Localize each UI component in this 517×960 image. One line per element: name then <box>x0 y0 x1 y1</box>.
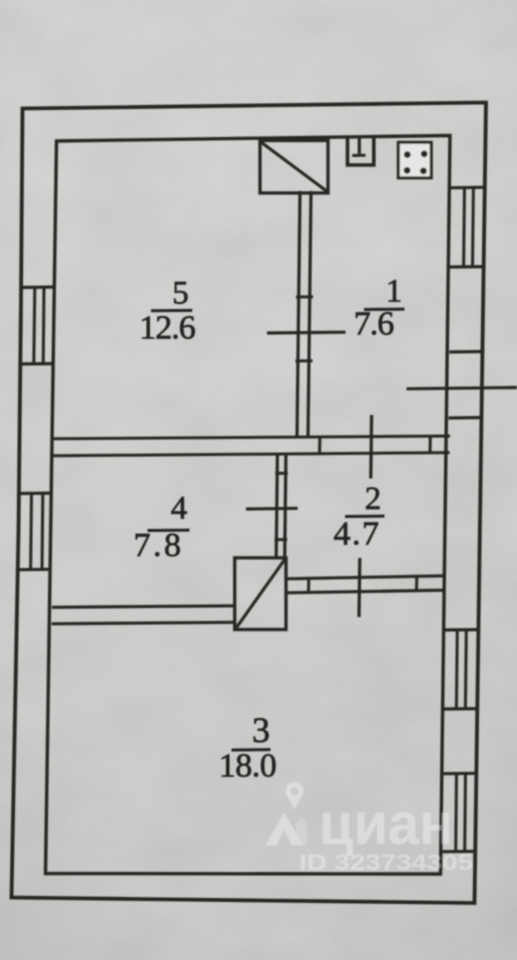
window W1 glazing line b <box>42 287 46 364</box>
door leaf box room3 <box>235 558 286 630</box>
svg-text:циан: циан <box>319 791 453 857</box>
mid wall tick right <box>429 436 432 453</box>
wall rooms2-3 line b <box>286 590 444 593</box>
mid horizontal wall line a <box>52 436 450 439</box>
window W2 left wall room4 top edge <box>18 492 52 496</box>
partition wall rooms4-2 line b <box>285 455 286 557</box>
door mark rooms1-2 <box>369 415 373 479</box>
svg-text:4: 4 <box>171 491 188 527</box>
window W3 right wall room1 top edge <box>450 186 485 190</box>
window W2 glazing line a <box>29 493 33 569</box>
partition wall rooms4-2 line a <box>276 456 277 558</box>
entrance line to image edge <box>407 388 517 389</box>
svg-text:1: 1 <box>386 274 403 310</box>
wall 5-1 tick upper <box>296 295 313 298</box>
svg-text:ID 323734305: ID 323734305 <box>299 850 473 875</box>
inner wall outline <box>46 136 451 875</box>
svg-text:18.0: 18.0 <box>219 748 277 785</box>
window W4 right wall room3 upper bottom edge <box>443 707 478 711</box>
svg-text:7.6: 7.6 <box>354 306 394 343</box>
stove symbol <box>398 142 431 178</box>
window W4 glazing line a <box>455 630 459 709</box>
room 4 fraction line <box>148 529 190 532</box>
sink symbol <box>348 138 374 166</box>
wall 2-3 tick left <box>307 578 310 593</box>
door leaf diagonal <box>237 560 285 628</box>
mid horizontal wall line b <box>52 453 450 456</box>
sink tap stem <box>358 138 361 154</box>
room 1 fraction line <box>364 308 405 311</box>
partition wall rooms5-1 line b <box>308 191 311 437</box>
door mark rooms2-3 <box>357 558 361 617</box>
svg-text:5: 5 <box>172 276 189 312</box>
window W1 glazing line a <box>34 287 35 364</box>
right wall tick lower <box>449 416 484 420</box>
wall rooms4-3 line a <box>52 606 235 608</box>
wall 4-2 tick upper <box>275 472 288 475</box>
flue duct diagonal <box>262 143 327 192</box>
room 2 fraction line <box>345 515 385 518</box>
wall 2-3 tick right <box>415 576 418 591</box>
outer wall outline <box>12 103 487 904</box>
room 3 fraction line <box>232 748 271 751</box>
window W3 right wall room1 bottom edge <box>449 265 484 269</box>
svg-text:7.8: 7.8 <box>134 527 184 564</box>
svg-text:3: 3 <box>252 710 270 750</box>
sink tap bar <box>352 154 365 157</box>
room labels <box>134 274 405 785</box>
window W4 right wall room3 upper top edge <box>444 628 479 632</box>
svg-text:2: 2 <box>365 481 382 517</box>
wall 5-1 tick lower <box>296 359 313 362</box>
watermark pin icon <box>285 782 303 800</box>
window W2 glazing line b <box>41 493 45 569</box>
room 5 fraction line <box>151 309 192 312</box>
window W2 left wall room4 bottom edge <box>17 568 51 572</box>
cian watermark <box>266 782 474 875</box>
wall rooms2-3 line a <box>286 576 444 579</box>
window W4 glazing line b <box>464 630 468 709</box>
watermark logo mark <box>266 813 304 846</box>
flue duct box <box>260 141 328 194</box>
right wall tick upper <box>449 350 484 354</box>
svg-text:12.6: 12.6 <box>139 310 195 347</box>
mid wall tick left <box>318 437 321 455</box>
wall rooms4-3 line b <box>52 622 235 624</box>
door mark rooms5-1 <box>267 331 346 335</box>
window W1 left wall room5 top edge <box>21 285 55 289</box>
window W3 glazing line b <box>471 187 475 266</box>
partition wall rooms5-1 line a <box>297 191 300 438</box>
window W3 glazing line a <box>462 188 466 268</box>
window W5 glazing line b <box>463 773 467 851</box>
wall 4-2 tick lower <box>275 538 288 541</box>
window W1 left wall room5 bottom edge <box>19 362 53 366</box>
door mark rooms4-2 <box>246 507 298 511</box>
window W5 glazing line a <box>454 774 458 852</box>
window W5 right wall room3 lower top edge <box>442 772 477 776</box>
window W5 right wall room3 lower bottom edge <box>441 850 476 854</box>
svg-text:4.7: 4.7 <box>334 516 381 553</box>
